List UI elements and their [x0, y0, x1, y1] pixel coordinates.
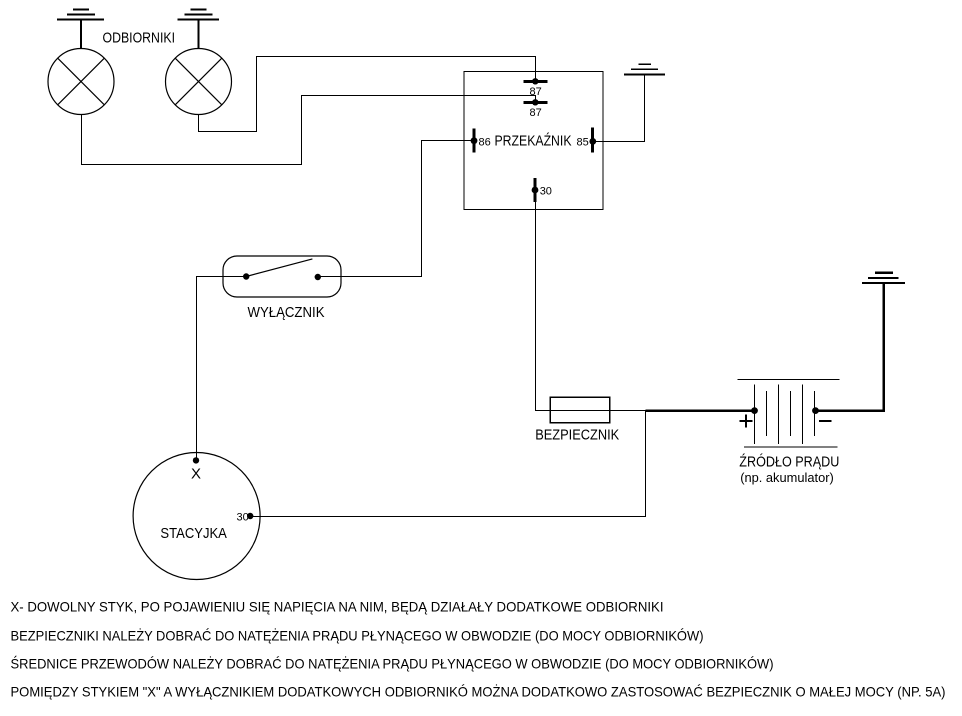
- wire relay 30 down to fuse junction: [535, 190, 537, 411]
- minus sign: [819, 420, 831, 422]
- battery short plates: [767, 391, 815, 436]
- wire fuse run: [535, 410, 646, 412]
- svg-text:X- DOWOLNY STYK, PO POJAWIENIU: X- DOWOLNY STYK, PO POJAWIENIU SIĘ NAPIĘ…: [11, 599, 664, 615]
- svg-text:BEZPIECZNIKI NALEŻY DOBRAĆ DO: BEZPIECZNIKI NALEŻY DOBRAĆ DO NATĘŻENIA …: [11, 627, 704, 644]
- svg-text:30: 30: [540, 186, 552, 198]
- stacyjka terminal X: [193, 457, 199, 463]
- svg-text:ŹRÓDŁO PRĄDU: ŹRÓDŁO PRĄDU: [739, 453, 839, 470]
- lamp ODBIORNIK 2: [166, 49, 232, 115]
- relay pin 85: [589, 128, 596, 153]
- svg-text:87: 87: [530, 86, 542, 98]
- svg-text:ODBIORNIKI: ODBIORNIKI: [103, 30, 176, 47]
- wire G1 stem to lamp1: [80, 20, 82, 50]
- svg-text:(np. akumulator): (np. akumulator): [740, 470, 834, 485]
- svg-text:STACYJKA: STACYJKA: [160, 525, 227, 542]
- wire G2 stem to lamp2: [198, 20, 200, 50]
- wire switch to stacyjka X: [197, 277, 247, 461]
- switch left contact: [243, 273, 249, 279]
- switch right contact: [315, 274, 321, 280]
- svg-text:POMIĘDZY STYKIEM "X" A WYŁĄCZN: POMIĘDZY STYKIEM "X" A WYŁĄCZNIKIEM DODA…: [11, 683, 946, 700]
- stacyjka terminal 30: [247, 513, 253, 519]
- svg-text:30: 30: [237, 512, 249, 524]
- battery long plates: [755, 384, 803, 443]
- battery minus terminal: [812, 407, 819, 414]
- svg-text:WYŁĄCZNIK: WYŁĄCZNIK: [248, 304, 325, 321]
- svg-text:ŚREDNICE PRZEWODÓW NALEŻY DOBR: ŚREDNICE PRZEWODÓW NALEŻY DOBRAĆ DO NATĘ…: [11, 655, 774, 672]
- ignition switch STACYJKA circle: [133, 453, 260, 580]
- wire battery minus to ground G4: [816, 283, 884, 411]
- battery plus terminal: [751, 407, 758, 414]
- lamp ODBIORNIK 1: [48, 49, 114, 115]
- wire switch to relay 86: [318, 141, 474, 277]
- relay box PRZEKAZNIK: [464, 72, 603, 210]
- svg-text:BEZPIECZNIK: BEZPIECZNIK: [535, 427, 619, 444]
- battery bottom rail: [744, 446, 838, 448]
- battery top rail: [738, 378, 840, 380]
- svg-text:X: X: [191, 466, 201, 483]
- relay pin 86: [471, 129, 478, 153]
- svg-text:86: 86: [479, 137, 491, 149]
- wire relay 85 to ground G3: [593, 75, 645, 142]
- svg-text:87: 87: [530, 107, 542, 119]
- ground G2 (above right lamp): [178, 10, 220, 20]
- fuse BEZPIECZNIK box: [550, 397, 610, 423]
- relay pin 87a: [524, 78, 548, 84]
- svg-text:PRZEKAŹNIK: PRZEKAŹNIK: [495, 133, 572, 150]
- wire lamp2 to relay pin 87a: [199, 57, 536, 132]
- svg-text:85: 85: [577, 137, 589, 149]
- wire junction to battery plus (thick): [646, 409, 755, 412]
- ground G1 (above left lamp): [57, 10, 104, 20]
- ground G3 (top right of relay): [624, 64, 665, 74]
- wire junction to stacyjka 30: [250, 411, 645, 517]
- wire lamp1 to relay pin 87b: [82, 96, 536, 165]
- relay pin 30: [532, 178, 539, 202]
- ground G4 (battery): [862, 273, 905, 283]
- relay pin 87b: [524, 99, 548, 105]
- plus sign: [740, 415, 753, 428]
- switch lever: [246, 259, 312, 277]
- switch WYLACZNIK box: [223, 256, 341, 297]
